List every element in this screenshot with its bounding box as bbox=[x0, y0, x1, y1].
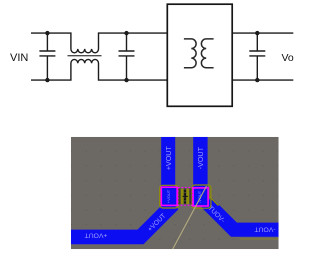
silkscreen line under right trace bbox=[240, 238, 279, 240]
junction C2 bottom bbox=[124, 78, 128, 82]
pad P2 right bbox=[193, 188, 208, 206]
wire bottom rail with choke L1 lower winding bbox=[31, 59, 167, 80]
trace -VOUT bottom-right run bbox=[207, 202, 279, 229]
ratsnest line bbox=[173, 186, 207, 249]
capacitor C2 bbox=[119, 33, 135, 80]
capacitor C1 bbox=[39, 33, 55, 80]
capacitor C3 bbox=[249, 33, 265, 80]
via cluster olive bars bbox=[181, 189, 184, 204]
pad courtyard olive left bbox=[160, 185, 179, 208]
choke L1 core line bbox=[68, 55, 102, 57]
trace +VOUT bottom-left run bbox=[71, 204, 173, 237]
via cluster black marks bbox=[184, 190, 186, 203]
via cluster dashed magenta outline bbox=[178, 188, 193, 206]
junction C2 top bbox=[124, 31, 128, 35]
junction C3 bottom bbox=[255, 78, 259, 82]
transformer T1 secondary winding bbox=[201, 39, 213, 68]
junction C1 top bbox=[45, 31, 49, 35]
pcb background grid bbox=[71, 137, 279, 249]
PCB layout screenshot bbox=[71, 137, 279, 249]
transformer T1 primary winding bbox=[184, 39, 196, 68]
wire top rail with choke L1 upper winding bbox=[31, 33, 167, 53]
trace +VOUT vertical bbox=[161, 137, 175, 189]
svg-text:+VOUT: +VOUT bbox=[85, 232, 108, 239]
via cluster dark columns bbox=[178, 188, 180, 204]
transformer module box U1 bbox=[167, 4, 232, 106]
wire output bottom rail bbox=[232, 79, 293, 81]
svg-text:+VOUT: +VOUT bbox=[164, 146, 173, 171]
via cluster center cross bbox=[183, 194, 188, 199]
svg-text:-VOUT: -VOUT bbox=[196, 146, 205, 169]
wire output top rail bbox=[232, 32, 293, 34]
pad P1 left bbox=[161, 187, 177, 205]
svg-text:+VOUT: +VOUT bbox=[166, 189, 171, 203]
svg-text:Vo: Vo bbox=[282, 52, 294, 64]
junction C1 bottom bbox=[45, 78, 49, 82]
svg-text:-VOUT: -VOUT bbox=[254, 225, 275, 232]
silkscreen tick on right diagonal bbox=[210, 197, 219, 206]
pad courtyard olive right bbox=[192, 185, 211, 208]
trace -VOUT vertical bbox=[193, 137, 207, 189]
junction C3 top bbox=[255, 31, 259, 35]
svg-text:VIN: VIN bbox=[10, 52, 28, 64]
